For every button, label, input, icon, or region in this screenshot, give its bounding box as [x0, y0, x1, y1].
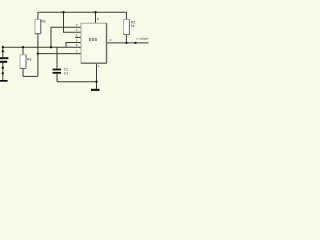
wire reset pin4 from VCC: [64, 12, 82, 32]
wire pin stub row3: [75, 36, 81, 38]
svg-text:8: 8: [97, 17, 99, 21]
svg-text:2: 2: [76, 23, 78, 27]
wire R3 bottom lead: [22, 68, 24, 76]
wire R2 bottom vertical to U-bend: [37, 34, 39, 77]
wire C1 top lead: [56, 47, 58, 68]
wire output pin3: [107, 42, 149, 44]
node rail-battery junction: [2, 46, 4, 48]
wire VCC top rail: [38, 11, 127, 13]
node battery bottom terminal: [2, 67, 4, 69]
node battery ground terminal: [2, 72, 4, 74]
wire pin8 VCC stub: [95, 12, 97, 23]
node output R1 junction: [125, 42, 127, 44]
svg-text:5: 5: [76, 38, 78, 42]
wire C1 bottom lead: [56, 74, 58, 82]
node output terminal junction: [134, 42, 136, 44]
wire bottom ground rail: [57, 81, 97, 83]
svg-text:R3: R3: [27, 57, 31, 61]
svg-text:7: 7: [76, 50, 78, 54]
op-amp U1 555 timer box: [81, 23, 107, 63]
ground battery side: [0, 80, 8, 82]
resistor R3: [20, 55, 26, 69]
node discharge junction: [37, 52, 39, 54]
svg-text:c <output>: c <output>: [136, 37, 149, 41]
wire R2 top lead: [37, 12, 39, 19]
svg-text:0.1: 0.1: [64, 72, 69, 76]
svg-text:3: 3: [110, 38, 112, 42]
node ground rail junction: [95, 81, 97, 83]
wire pin1 ground lead: [96, 63, 98, 89]
node battery top terminal: [2, 50, 4, 52]
ground pin1: [91, 89, 100, 91]
node VCC pin8 junction: [94, 11, 96, 13]
wire R1 bottom lead: [125, 35, 127, 43]
wire battery bottom lead: [2, 63, 4, 80]
svg-text:4: 4: [76, 28, 78, 32]
svg-text:555: 555: [89, 37, 98, 42]
resistor R1: [123, 20, 129, 35]
node VCC reset junction: [62, 11, 64, 13]
wire U-bend bottom horizontal: [23, 75, 38, 77]
svg-text:R2: R2: [41, 20, 45, 24]
wire control pin5: [66, 43, 81, 48]
node trigger rail junction: [50, 46, 52, 48]
svg-text:1k: 1k: [131, 24, 135, 28]
resistor R2: [35, 20, 41, 34]
wire main rail node A: [3, 46, 81, 48]
node R3 top junction: [22, 46, 24, 48]
capacitor C1 plates: [53, 69, 62, 74]
wire trigger pin2: [51, 27, 81, 47]
battery V1 plates: [0, 57, 8, 63]
svg-text:1: 1: [98, 64, 100, 68]
svg-text:6: 6: [76, 33, 78, 37]
svg-text:6: 6: [76, 43, 78, 47]
wire discharge pin7 jog: [38, 53, 81, 55]
wire R3 top lead: [22, 47, 24, 55]
wire R1 top lead: [125, 12, 127, 19]
wire battery top lead: [2, 47, 4, 57]
